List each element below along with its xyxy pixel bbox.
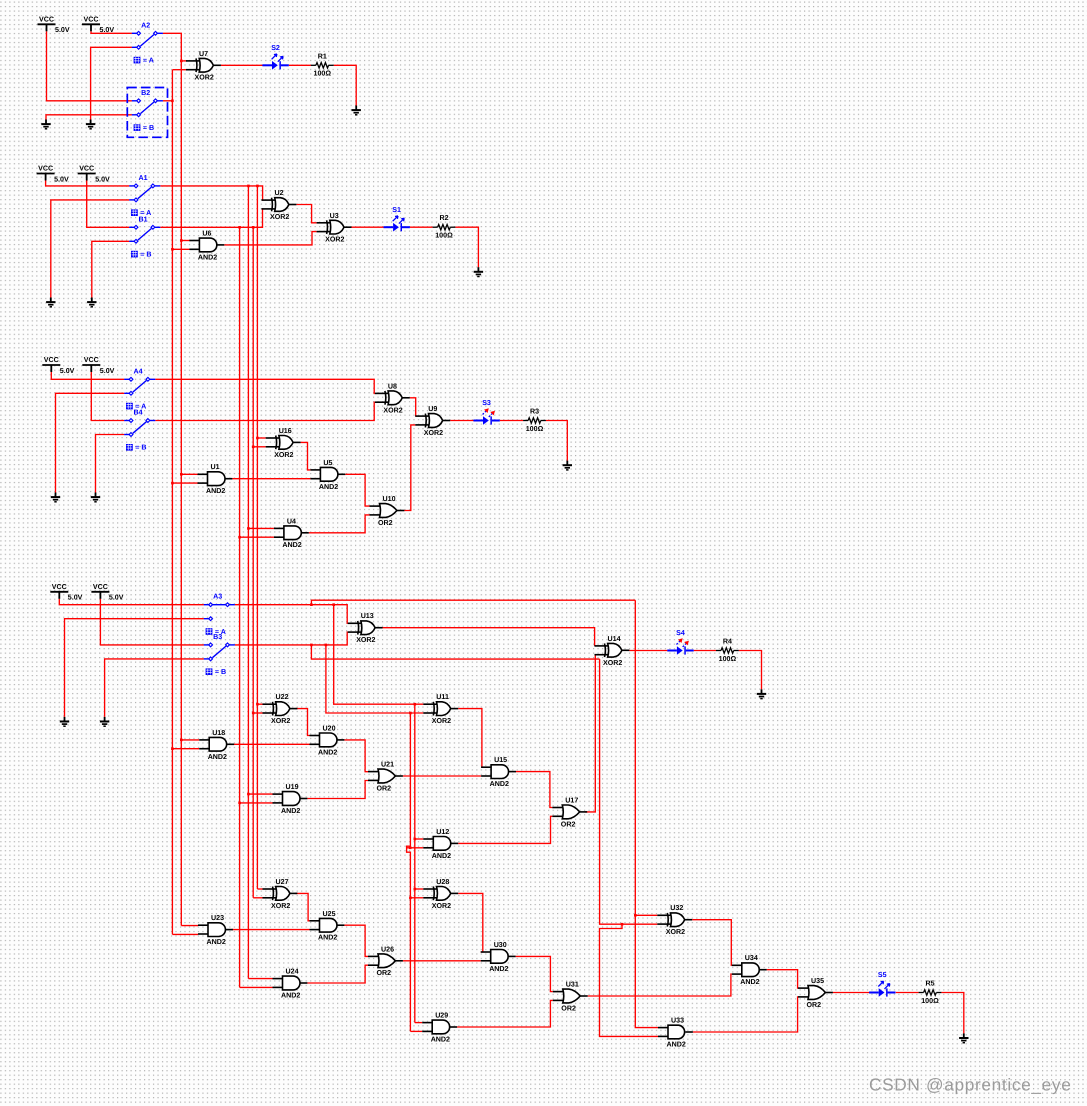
svg-text:U12: U12 xyxy=(436,828,449,836)
svg-text:= B: = B xyxy=(140,251,151,259)
wire A3 bottom contact to ground xyxy=(65,619,204,717)
wire A1 branch vertical b xyxy=(256,186,258,889)
svg-text:100Ω: 100Ω xyxy=(526,425,544,433)
wire B2 net stub to U1.B xyxy=(172,482,198,484)
svg-text:AND2: AND2 xyxy=(667,1040,686,1048)
and-gate U34 (AND2) xyxy=(732,963,767,977)
wire S4 to R4 xyxy=(694,650,716,652)
wire B3 common run xyxy=(235,632,348,645)
wire B3 bottom contact to ground xyxy=(105,659,204,717)
LED S1 xyxy=(384,226,394,228)
xor-gate U16 (XOR2) xyxy=(266,436,301,450)
wire U22 output to U20.A xyxy=(295,709,309,736)
junction B3 net at U32.B jog xyxy=(621,923,624,926)
wire B2 net stub to U23.B xyxy=(172,933,198,935)
wire U14 output to S4 xyxy=(629,650,667,652)
wire U5 output to U10.A xyxy=(345,474,369,506)
power VCC V2 xyxy=(82,24,100,31)
wire U24 output to U26.B xyxy=(307,965,368,983)
wire U1 output to U5.B xyxy=(232,478,310,480)
junction B2 net at U18.B xyxy=(171,747,174,750)
wire B3 vertical to U32.B xyxy=(600,659,658,924)
wire U35 output to S5 xyxy=(833,992,870,994)
wire U15 output to U17.A xyxy=(516,772,552,808)
switch B1 (SPDT key) xyxy=(129,227,160,241)
svg-text:U28: U28 xyxy=(436,878,449,886)
wire S3 to R3 xyxy=(500,420,523,422)
junction A2 net at U6.A xyxy=(180,239,183,242)
svg-text:U30: U30 xyxy=(494,941,507,949)
svg-text:VCC: VCC xyxy=(44,356,59,364)
wire U3 output to S1 xyxy=(352,226,384,228)
svg-text:U34: U34 xyxy=(745,954,758,962)
svg-text:XOR2: XOR2 xyxy=(432,717,451,725)
junction A2 net at U18.A xyxy=(180,739,183,742)
wire A3 vertical to U33.A xyxy=(635,600,658,1027)
ground GND5 xyxy=(87,298,96,307)
svg-text:5.0V: 5.0V xyxy=(54,175,69,183)
svg-text:= B: = B xyxy=(215,668,226,676)
wire A1 net stub to U16.A xyxy=(257,437,265,439)
label key = B xyxy=(126,444,133,451)
and-gate U12 (AND2) xyxy=(423,837,458,851)
or-gate U10 (OR2) xyxy=(370,504,405,518)
wire VCC2 to A2 top contact xyxy=(91,31,132,33)
svg-text:5.0V: 5.0V xyxy=(55,26,70,34)
svg-text:AND2: AND2 xyxy=(490,780,509,788)
junction B3 net at U28.B xyxy=(409,897,412,900)
svg-text:U1: U1 xyxy=(211,463,220,471)
svg-text:U13: U13 xyxy=(361,612,374,620)
wire U17 output to U14.B xyxy=(585,655,596,812)
wire A3 net stub to U32.A xyxy=(635,914,657,916)
wire B2 net stub to U6.B xyxy=(172,248,190,250)
wire U10 output to U9.B xyxy=(404,425,415,511)
svg-text:XOR2: XOR2 xyxy=(356,636,375,644)
svg-text:AND2: AND2 xyxy=(319,483,338,491)
wire B4 bottom contact to ground xyxy=(96,435,125,493)
junction A1 net at U16.A xyxy=(256,437,259,440)
switch B3 (SPDT key) xyxy=(204,645,235,659)
LED S1 emission arrows xyxy=(393,216,398,221)
wire VCC8 to B3 top contact xyxy=(100,599,203,645)
wire U32 output to U34.A xyxy=(692,920,732,966)
wire U9 output to S3 xyxy=(450,420,473,422)
and-gate U30 (AND2) xyxy=(481,950,516,964)
svg-text:XOR2: XOR2 xyxy=(383,406,402,414)
power VCC V5 xyxy=(42,365,60,372)
LED S2 emission arrows xyxy=(272,54,277,59)
junction A1 net at U19.A xyxy=(247,793,250,796)
svg-text:U2: U2 xyxy=(275,189,284,197)
svg-text:S2: S2 xyxy=(271,44,280,52)
junction B1 net branch b xyxy=(252,226,255,229)
junction A3 net at U11.A xyxy=(414,703,417,706)
svg-text:VCC: VCC xyxy=(39,16,54,24)
wire U21 output to U15.B xyxy=(403,775,481,777)
xor-gate U9 (XOR2) xyxy=(415,414,450,428)
wire U18 output to U20.B xyxy=(233,743,309,745)
wire A4 common to U8.A xyxy=(155,379,375,393)
xor-gate U27 (XOR2) xyxy=(263,887,298,901)
label key = B xyxy=(206,668,213,675)
svg-text:AND2: AND2 xyxy=(740,978,759,986)
wire A2 net stub to U7.A xyxy=(181,60,187,62)
svg-text:AND2: AND2 xyxy=(208,753,227,761)
wire U2 output to U3.A xyxy=(296,205,316,223)
junction B1 net at U22.B xyxy=(252,712,255,715)
and-gate U5 (AND2) xyxy=(310,467,345,481)
resistor R1 xyxy=(311,63,334,68)
wire A3 net stub to U29.A xyxy=(415,1022,422,1024)
svg-text:AND2: AND2 xyxy=(489,965,508,973)
svg-text:U35: U35 xyxy=(811,977,824,985)
svg-text:5.0V: 5.0V xyxy=(100,367,115,375)
svg-text:OR2: OR2 xyxy=(561,1005,576,1013)
wire A3 net stub to U12.A xyxy=(415,838,424,840)
junction A3 net at U28.A xyxy=(414,888,417,891)
and-gate U4 (AND2) xyxy=(274,526,309,540)
svg-text:VCC: VCC xyxy=(84,16,99,24)
svg-text:U9: U9 xyxy=(428,405,437,413)
wire R2 to ground xyxy=(455,227,478,267)
svg-text:U3: U3 xyxy=(330,212,339,220)
wire U16 output to U5.A xyxy=(301,442,311,470)
svg-text:R2: R2 xyxy=(439,214,448,222)
svg-text:U26: U26 xyxy=(381,945,394,953)
svg-text:100Ω: 100Ω xyxy=(314,70,332,78)
wire A1 bottom contact to ground xyxy=(51,200,130,298)
svg-text:100Ω: 100Ω xyxy=(719,655,737,663)
ground GND8 xyxy=(91,493,100,502)
wire VCC4 to B1 top contact xyxy=(87,181,130,228)
wire A1 net stub to U24.A xyxy=(248,978,272,980)
resistor R4 xyxy=(716,648,739,653)
svg-text:AND2: AND2 xyxy=(282,541,301,549)
wire R3 to ground xyxy=(546,421,567,461)
LED S3 xyxy=(473,420,483,422)
wire B1 net stub to U19.B xyxy=(240,802,273,804)
svg-text:U32: U32 xyxy=(670,904,683,912)
wire S2 to R1 xyxy=(289,64,311,66)
and-gate U20 (AND2) xyxy=(310,733,345,747)
svg-text:AND2: AND2 xyxy=(198,253,217,261)
svg-text:XOR2: XOR2 xyxy=(666,928,685,936)
xor-gate U11 (XOR2) xyxy=(423,702,458,716)
label key = A xyxy=(131,209,138,216)
wire U12 output to U17.B xyxy=(458,816,552,843)
junction B2 net at U6.B xyxy=(171,248,174,251)
wire U26 output to U30.B xyxy=(403,960,481,962)
xor-gate U28 (XOR2) xyxy=(423,887,458,901)
ground GND11 xyxy=(100,717,109,726)
and-gate U1 (AND2) xyxy=(198,472,233,486)
junction B3 net at U11.B xyxy=(409,712,412,715)
junction A3 net at U12.A xyxy=(414,838,417,841)
wire B2 net vertical xyxy=(171,70,173,935)
wire U23 output to U25.B xyxy=(232,929,310,931)
svg-text:OR2: OR2 xyxy=(377,785,392,793)
svg-text:U20: U20 xyxy=(323,724,336,732)
svg-text:U14: U14 xyxy=(608,635,621,643)
switch B2 (SPDT key) xyxy=(132,101,163,115)
wire A2 bottom contact to ground xyxy=(91,47,132,119)
xor-gate U22 (XOR2) xyxy=(263,702,298,716)
LED S4 xyxy=(667,650,677,652)
wire B1 net stub to U16.B xyxy=(253,446,266,448)
wire B3 net stub to U29.B xyxy=(410,1030,422,1032)
wire A1 common to U2.A xyxy=(160,186,262,200)
svg-text:U16: U16 xyxy=(279,427,292,435)
svg-text:VCC: VCC xyxy=(84,356,99,364)
svg-text:VCC: VCC xyxy=(38,165,53,173)
and-gate U25 (AND2) xyxy=(310,918,345,932)
wire B3 net stub to U12.B xyxy=(407,847,424,849)
svg-text:U25: U25 xyxy=(323,910,336,918)
junction A2 net at U1.A xyxy=(180,473,183,476)
svg-text:R5: R5 xyxy=(925,980,934,988)
junction B1 net branch a xyxy=(238,226,241,229)
wire B2 net stub to U7.B xyxy=(172,69,187,71)
wire VCC3 to A1 top contact xyxy=(46,181,130,186)
wire A1 net stub to U22.A xyxy=(257,703,262,705)
switch B4 (SPDT key) xyxy=(124,421,155,435)
svg-text:A3: A3 xyxy=(213,593,222,601)
junction B1 net at U19.B xyxy=(238,802,241,805)
wire VCC6 to B4 top contact xyxy=(91,372,124,421)
wire U29 output to U31.B xyxy=(457,1000,553,1027)
or-gate U17 (OR2) xyxy=(552,805,587,819)
wire U28 output to U30.A xyxy=(458,893,483,952)
ground GND3 (R1) xyxy=(352,106,361,115)
svg-text:AND2: AND2 xyxy=(207,938,226,946)
wire A4 bottom contact to ground xyxy=(56,393,125,492)
svg-text:AND2: AND2 xyxy=(281,992,300,1000)
svg-text:AND2: AND2 xyxy=(318,934,337,942)
wire A3 right vertical xyxy=(414,704,416,1022)
wire A2 net stub to U18.A xyxy=(181,739,199,741)
wire U6 output to U3.B xyxy=(224,232,316,245)
wire VCC7 to A3 top contact xyxy=(59,599,204,605)
svg-text:OR2: OR2 xyxy=(378,519,393,527)
wire U33 output to U35.B xyxy=(693,997,798,1032)
wire U27 output to U25.A xyxy=(295,893,309,920)
wire B3 branch down to U11.B xyxy=(326,645,423,713)
wire U19 output to U21.B xyxy=(307,781,368,799)
wire B4 common to U8.B xyxy=(155,402,375,420)
svg-text:XOR2: XOR2 xyxy=(325,236,344,244)
xor-gate U13 (XOR2) xyxy=(348,621,383,635)
xor-gate U3 (XOR2) xyxy=(317,220,352,234)
label key = A xyxy=(126,403,133,410)
svg-text:= A: = A xyxy=(143,57,154,65)
junction B3 net at U12.B xyxy=(409,847,412,850)
and-gate U33 (AND2) xyxy=(658,1025,693,1039)
svg-text:U21: U21 xyxy=(381,761,394,769)
svg-text:XOR2: XOR2 xyxy=(274,451,293,459)
wire B2 net stub to U18.B xyxy=(172,748,199,750)
ground GND13 (R5) xyxy=(959,1033,968,1042)
label key = B xyxy=(134,124,141,131)
wire S1 to R2 xyxy=(410,226,433,228)
wire U7 output to S2 xyxy=(221,64,263,66)
svg-text:U33: U33 xyxy=(671,1017,684,1025)
LED S3 emission arrows xyxy=(483,411,486,414)
wire B1 net stub to U27.B xyxy=(253,897,262,899)
svg-text:U17: U17 xyxy=(565,796,578,804)
svg-text:U15: U15 xyxy=(494,756,507,764)
wire U25 output to U26.A xyxy=(344,925,368,956)
wire U8 output to U9.A xyxy=(410,398,416,416)
svg-text:U22: U22 xyxy=(276,693,289,701)
svg-text:XOR2: XOR2 xyxy=(271,902,290,910)
junction A3 net at U32.A xyxy=(634,914,637,917)
power VCC V4 xyxy=(78,174,96,181)
svg-text:OR2: OR2 xyxy=(377,969,392,977)
wire VCC5 to A4 top contact xyxy=(51,372,124,379)
svg-text:U31: U31 xyxy=(566,981,579,989)
xor-gate U14 (XOR2) xyxy=(595,643,630,657)
ground GND4 xyxy=(46,298,55,307)
junction A1 net branch b xyxy=(256,185,259,188)
svg-text:R1: R1 xyxy=(318,52,327,60)
ground GND9 (R3) xyxy=(563,461,572,470)
resistor R5 xyxy=(919,990,942,995)
ground GND1 xyxy=(41,120,50,129)
svg-text:U10: U10 xyxy=(383,495,396,503)
svg-text:B4: B4 xyxy=(134,409,143,417)
ground GND2 xyxy=(86,120,95,129)
wire S5 to R5 xyxy=(896,992,919,994)
switch A3 (SPDT key) xyxy=(204,605,235,619)
and-gate U19 (AND2) xyxy=(273,792,308,806)
wire U4 output to U10.B xyxy=(309,515,370,533)
wire B3 branch right xyxy=(311,645,599,659)
svg-text:XOR2: XOR2 xyxy=(603,659,622,667)
or-gate U35 (OR2) xyxy=(798,986,833,1000)
svg-text:U7: U7 xyxy=(199,50,208,58)
wire B2 bottom contact to ground xyxy=(46,115,132,120)
svg-text:U4: U4 xyxy=(287,517,296,525)
and-gate U23 (AND2) xyxy=(198,923,233,937)
svg-text:100Ω: 100Ω xyxy=(921,997,939,1005)
switch A2 (SPDT key) xyxy=(132,33,163,47)
wire A2 net stub to U6.A xyxy=(181,240,190,242)
wire A2 net stub to U23.A xyxy=(181,925,198,927)
label key = A xyxy=(134,57,141,64)
svg-text:S4: S4 xyxy=(676,629,685,637)
wire B1 branch vertical b xyxy=(252,227,254,898)
wire A1 branch vertical a xyxy=(247,186,249,979)
switch A1 (SPDT key) xyxy=(129,186,160,200)
svg-text:5.0V: 5.0V xyxy=(68,594,83,602)
power VCC V8 xyxy=(91,592,109,599)
and-gate U29 (AND2) xyxy=(422,1020,457,1034)
LED S2 xyxy=(262,64,272,66)
resistor R3 xyxy=(523,418,546,423)
svg-text:S3: S3 xyxy=(482,399,491,407)
wire R1 to ground xyxy=(334,65,357,105)
svg-text:U11: U11 xyxy=(436,693,449,701)
wire B3 net stub to U28.B xyxy=(410,897,423,899)
wire B1 branch vertical a xyxy=(239,227,241,987)
svg-text:B2: B2 xyxy=(141,89,150,97)
junction B1 net at U16.B xyxy=(252,446,255,449)
junction B1 net at U4.B xyxy=(238,536,241,539)
ground GND10 xyxy=(60,717,69,726)
xor-gate U7 (XOR2) xyxy=(186,58,221,72)
svg-text:5.0V: 5.0V xyxy=(100,26,115,34)
wire A1 net stub to U27.A xyxy=(257,888,262,890)
svg-text:S5: S5 xyxy=(878,971,887,979)
wire U31 output to U34.B xyxy=(588,974,732,996)
svg-text:U8: U8 xyxy=(388,382,397,390)
wire R5 to ground xyxy=(941,993,963,1034)
svg-text:VCC: VCC xyxy=(79,165,94,173)
svg-text:5.0V: 5.0V xyxy=(95,175,110,183)
svg-text:U19: U19 xyxy=(286,783,299,791)
junction B2 net at U1.B xyxy=(171,482,174,485)
power VCC V1 xyxy=(38,24,56,31)
junction A1 net at U22.A xyxy=(256,703,259,706)
junction B3 net branch down xyxy=(325,644,328,647)
xor-gate U8 (XOR2) xyxy=(375,391,410,405)
svg-text:5.0V: 5.0V xyxy=(60,367,75,375)
wire B3 right vertical xyxy=(407,713,411,1031)
svg-text:B1: B1 xyxy=(139,215,148,223)
svg-text:OR2: OR2 xyxy=(561,820,576,828)
resistor R2 xyxy=(433,225,456,230)
junction A3 net branch down xyxy=(332,603,335,606)
junction A2 net at U7.A xyxy=(180,60,183,63)
svg-text:XOR2: XOR2 xyxy=(195,74,214,82)
svg-text:5.0V: 5.0V xyxy=(109,594,124,602)
LED S4 emission arrows xyxy=(677,641,680,644)
svg-text:XOR2: XOR2 xyxy=(432,902,451,910)
svg-text:U6: U6 xyxy=(202,230,211,238)
svg-text:B3: B3 xyxy=(213,633,222,641)
svg-text:= B: = B xyxy=(143,124,154,132)
wire A3 branch down to U11.A xyxy=(334,605,424,705)
and-gate U15 (AND2) xyxy=(481,765,516,779)
junction A1 net branch a xyxy=(247,185,250,188)
wire A1 net stub to U4.A xyxy=(248,527,274,529)
LED S5 emission arrows xyxy=(878,981,883,986)
ground GND6 (R2) xyxy=(474,267,483,276)
svg-text:R3: R3 xyxy=(530,408,539,416)
wire A2 net stub to U1.A xyxy=(181,473,198,475)
svg-text:XOR2: XOR2 xyxy=(270,213,289,221)
junction B2 net tee xyxy=(171,100,174,103)
wire A3 net stub to U28.A xyxy=(415,888,424,890)
wire B1 bottom contact to ground xyxy=(92,241,130,297)
junction A1 net at U4.A xyxy=(247,527,250,530)
label key = B xyxy=(131,251,138,258)
wire A2 common net vertical xyxy=(163,33,181,925)
label key = A xyxy=(206,628,213,635)
svg-text:OR2: OR2 xyxy=(807,1001,822,1009)
wire VCC1 to B2 top contact xyxy=(47,31,132,101)
ground GND12 (R4) xyxy=(757,689,766,698)
svg-text:S1: S1 xyxy=(392,206,401,214)
wire U13 output to U14.A xyxy=(380,628,594,646)
or-gate U21 (OR2) xyxy=(368,769,403,783)
svg-text:AND2: AND2 xyxy=(206,487,225,495)
or-gate U26 (OR2) xyxy=(368,954,403,968)
svg-text:U5: U5 xyxy=(323,459,332,467)
svg-text:U29: U29 xyxy=(435,1012,448,1020)
selection box around B2 xyxy=(127,88,167,138)
